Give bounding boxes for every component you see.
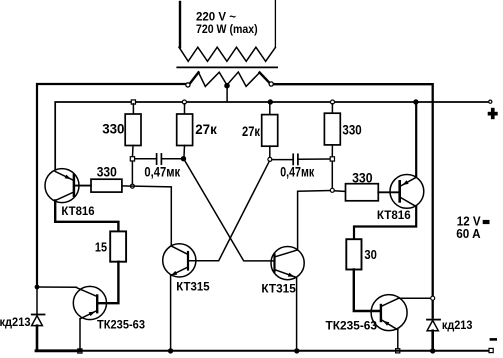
diode VD1 kd213 left <box>32 287 45 350</box>
wire KT315 right emitter to minus bus <box>296 278 298 351</box>
svg-text:0,47мк: 0,47мк <box>144 165 180 180</box>
svg-text:330: 330 <box>97 164 117 179</box>
wire stem bus to resistor 27k right <box>269 104 271 115</box>
wire TK235 right emitter to minus bus <box>397 330 399 351</box>
transformer T1 secondary winding left half <box>199 72 227 86</box>
terminal circle secondary center tap <box>225 84 229 88</box>
wire left cap node down to base network ring <box>131 161 133 184</box>
node square junction bus R1 stem <box>131 100 135 104</box>
wire KT816 right collector to resistor 30 <box>354 206 416 239</box>
svg-text:27к: 27к <box>242 124 260 139</box>
node ring right rail collector junction <box>431 296 435 300</box>
wire TK235 right collector to right rail ring <box>398 297 430 299</box>
wire right ring to resistor 330 base right <box>334 190 345 193</box>
resistor R1 330 left load <box>125 114 141 146</box>
wire secondary center tap down to plus bus <box>226 88 228 102</box>
transformer T1 secondary winding left end segment <box>189 72 198 84</box>
node square junction cap right <box>330 157 334 161</box>
svg-text:15: 15 <box>95 241 107 255</box>
wire minus bus <box>36 349 80 352</box>
wire cross coupling diagonal left node to right KT315 base <box>184 160 273 261</box>
wire KT315 left emitter to minus bus <box>170 276 172 351</box>
transistor V5 TK235-63 left <box>73 286 106 319</box>
wire TK235 left emitter to minus bus <box>79 319 81 351</box>
svg-text:330: 330 <box>352 170 373 185</box>
svg-text:0,47мк: 0,47мк <box>280 165 314 180</box>
svg-text:330: 330 <box>342 123 361 138</box>
terminal plus symbol <box>488 108 498 119</box>
node ring junction 27k right cap <box>268 157 272 161</box>
node square TK235 left emitter on minus bus <box>78 349 82 353</box>
terminal square minus bus end <box>489 348 493 352</box>
wire bus to KT816 right emitter <box>415 104 417 176</box>
node ring junction right base network <box>330 188 334 192</box>
capacitor C2 0,47uF right plates <box>293 154 298 164</box>
resistor R7 330 base right <box>346 184 379 201</box>
wire right cap node down to base network ring <box>331 161 333 188</box>
capacitor C1 0,47uF left plates <box>157 154 162 164</box>
svg-text:60 A: 60 A <box>456 227 480 241</box>
wire left node to KT315 left collector <box>122 186 171 246</box>
resistor R8 30 <box>346 239 361 269</box>
wire resistor 330 right bottom to cap node <box>331 145 333 157</box>
terminal ring plus bus end <box>489 100 492 103</box>
resistor R5 330 base left <box>91 179 122 192</box>
transformer T1 secondary winding right end segment <box>260 73 270 84</box>
resistor R2 27k left <box>177 114 193 146</box>
svg-text:220 V ~: 220 V ~ <box>196 11 236 23</box>
transistor V4 KT315 right <box>271 247 304 280</box>
resistor R3 27k right <box>262 115 278 147</box>
terminal circle secondary right <box>269 82 273 86</box>
svg-text:кд213: кд213 <box>442 318 473 332</box>
wire minus bus main <box>80 350 490 352</box>
wire secondary left terminal to left rail <box>37 84 186 287</box>
svg-text:ТК235-63: ТК235-63 <box>326 318 378 332</box>
resistor R4 330 right load <box>324 113 340 145</box>
wire capacitor C1 to 27k left node <box>162 158 181 160</box>
resistor R6 15 <box>110 231 126 261</box>
node dot diode right on minus bus <box>431 349 435 353</box>
node ring junction left base network <box>130 184 134 188</box>
svg-text:330: 330 <box>102 122 124 137</box>
node square TK235 right emitter on minus bus <box>396 349 400 353</box>
wire 27k right bottom stem <box>269 146 271 157</box>
wire KT816 left collector to resistor 15 <box>55 201 118 232</box>
wire resistor R7 to KT816 right base <box>378 191 399 193</box>
transformer T1 secondary winding right half <box>227 72 259 86</box>
svg-text:720 W (max): 720 W (max) <box>196 24 258 36</box>
node dot left rail collector junction <box>35 285 39 289</box>
wire stem bus to resistor 27k left <box>184 104 186 114</box>
transistor V3 KT315 left <box>163 244 196 277</box>
diode VD2 kd213 right <box>427 320 440 351</box>
svg-text:кд213: кд213 <box>0 315 31 329</box>
node ring junction bus R2 stem <box>182 100 186 104</box>
wire cross coupling diagonal right node to left KT315 base <box>189 161 269 261</box>
wire cap node to capacitor C1 <box>135 158 156 160</box>
svg-text:ТК235-63: ТК235-63 <box>97 318 145 332</box>
node dot KT315 right emitter on minus bus <box>295 349 299 353</box>
transformer T1 primary winding <box>179 47 275 61</box>
svg-text:30: 30 <box>364 248 377 262</box>
transformer T1 primary lead left <box>179 2 181 47</box>
transistor V1 KT816 left <box>45 169 79 203</box>
node square junction cap left <box>130 157 134 161</box>
wire capacitor C2 to right cap node <box>299 158 330 160</box>
svg-text:КТ315: КТ315 <box>261 282 296 296</box>
wire resistor R5 to KT816 left base <box>75 185 91 187</box>
node ring junction bus R330 right stem <box>331 100 335 104</box>
wire plus bus <box>55 102 489 169</box>
wire secondary right terminal to right power rail <box>274 84 433 317</box>
node dot KT315 left emitter on minus bus <box>168 349 172 353</box>
transformer T1 primary lead right <box>274 0 276 47</box>
svg-text:КТ816: КТ816 <box>61 204 95 218</box>
wire left rail node to TK235 left collector <box>37 286 77 288</box>
wire resistor 330 left bottom to cap node <box>132 146 135 157</box>
wire 27k left bottom stem <box>183 146 186 157</box>
wire stem bus to resistor 330 left <box>132 104 134 114</box>
node dot junction bus R3 stem <box>268 100 272 104</box>
wire resistor 30 to TK235 right base <box>354 270 380 312</box>
node dot junction 27k left cap <box>181 157 185 161</box>
transformer T1 core <box>177 66 277 68</box>
wire KT315 right collector up to right node <box>298 191 331 250</box>
terminal circle secondary left <box>186 83 190 87</box>
svg-text:КТ315: КТ315 <box>176 280 210 294</box>
svg-text:27к: 27к <box>195 122 217 137</box>
transistor V2 KT816 right <box>390 175 424 209</box>
svg-text:КТ816: КТ816 <box>377 208 411 222</box>
wire 27k right node to capacitor C2 <box>272 159 293 161</box>
wire stem bus to resistor 330 right <box>331 104 333 113</box>
terminal minus symbol <box>490 338 497 341</box>
node dot junction bus KT816 right feed <box>414 100 418 104</box>
transistor V6 TK235-63 right <box>371 295 407 331</box>
wire resistor 15 to TK235 left base <box>98 262 118 304</box>
